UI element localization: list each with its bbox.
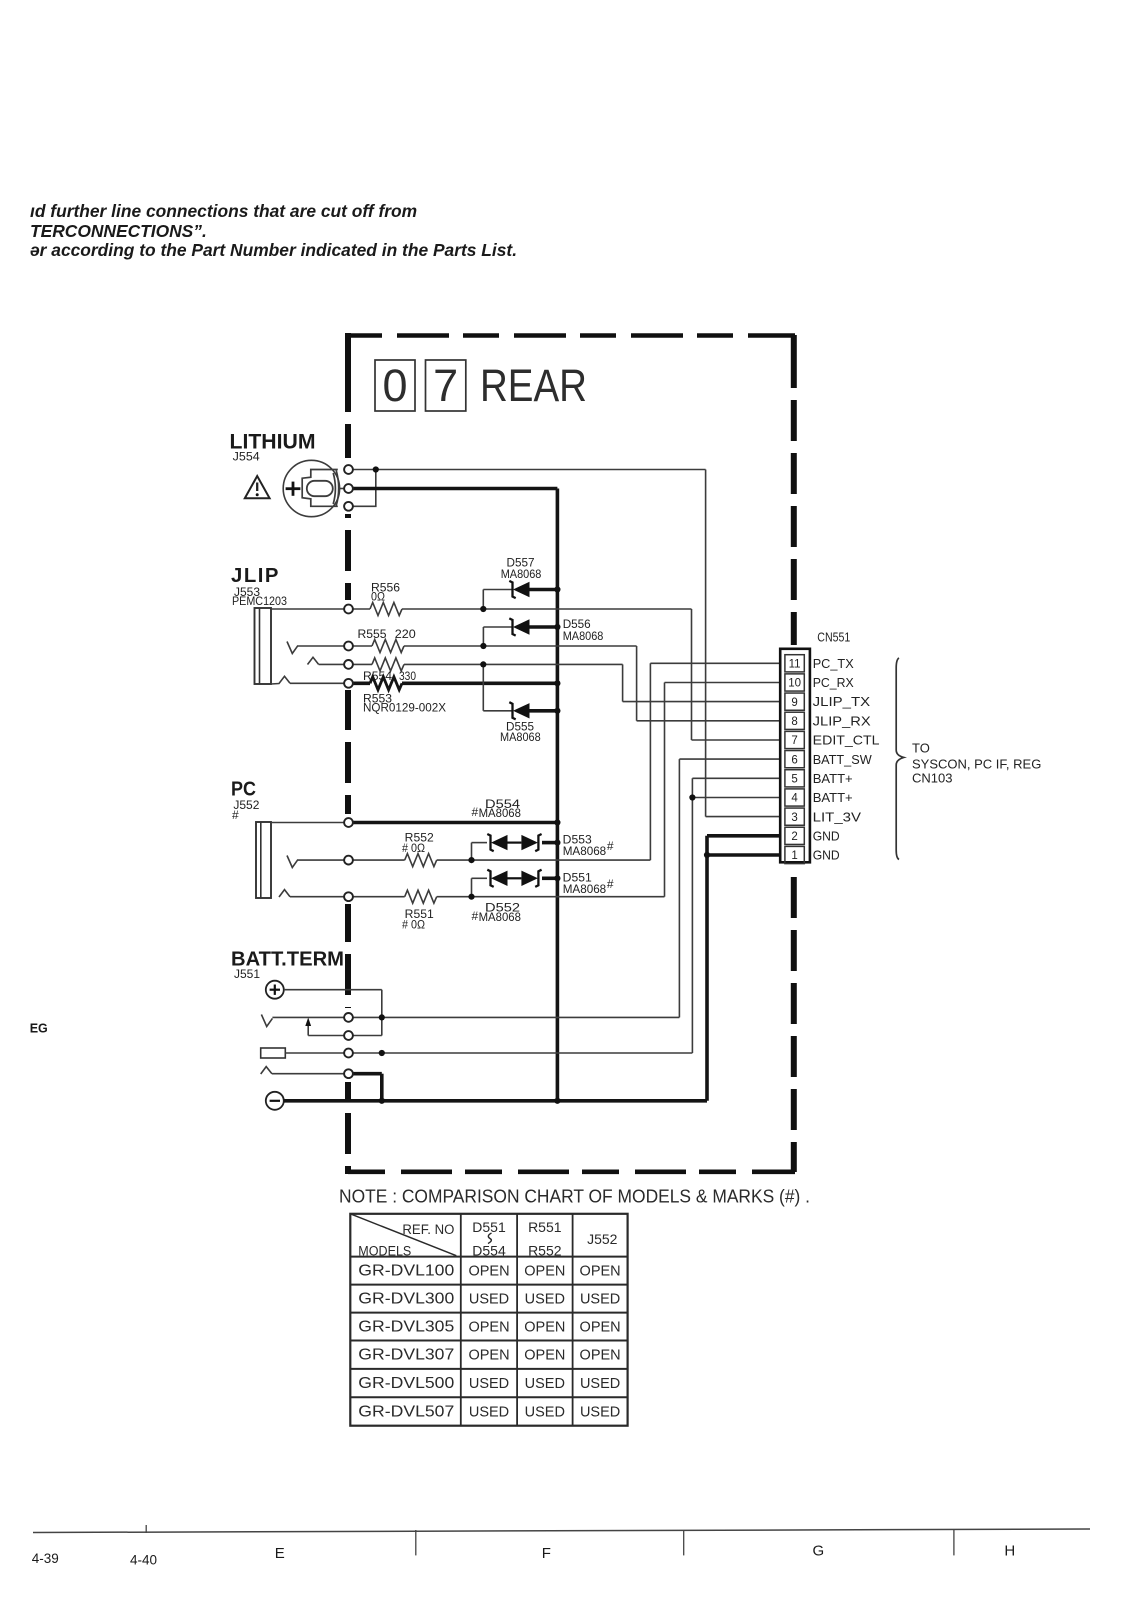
svg-text:USED: USED [525,1292,565,1308]
svg-text:USED: USED [525,1405,565,1421]
svg-text:BATT_SW: BATT_SW [813,752,873,767]
svg-text:USED: USED [469,1376,509,1392]
svg-text:R551: R551 [528,1219,562,1235]
svg-text:GR-DVL300: GR-DVL300 [358,1291,454,1308]
svg-text:NQR0129-002X: NQR0129-002X [363,701,446,715]
svg-text:3: 3 [791,812,797,824]
svg-text:7: 7 [791,735,797,747]
svg-text:4-39: 4-39 [32,1551,59,1566]
svg-text:USED: USED [469,1292,509,1308]
svg-text:0Ω: 0Ω [371,590,385,604]
svg-text:OPEN: OPEN [580,1264,621,1280]
svg-text:MA8068: MA8068 [500,730,541,744]
svg-text:OPEN: OPEN [468,1348,509,1364]
svg-text:F: F [542,1545,551,1562]
svg-text:H: H [1004,1542,1015,1559]
svg-text:MA8068: MA8068 [479,910,522,924]
svg-text:EDIT_CTL: EDIT_CTL [813,733,880,748]
svg-text:MA8068: MA8068 [479,806,522,820]
svg-text:0: 0 [382,360,407,411]
svg-text:BATT+: BATT+ [813,771,853,786]
svg-text:PC_RX: PC_RX [813,675,854,690]
svg-text:GR-DVL500: GR-DVL500 [358,1375,454,1392]
svg-text:5: 5 [791,774,797,786]
svg-text:R552: R552 [528,1243,562,1259]
svg-text:6: 6 [791,754,797,766]
svg-text:USED: USED [580,1376,620,1392]
svg-text:D554: D554 [472,1243,506,1259]
svg-text:GR-DVL507: GR-DVL507 [358,1404,454,1421]
svg-text:GR-DVL305: GR-DVL305 [358,1319,454,1336]
svg-text:D551: D551 [472,1219,506,1235]
svg-text:PEMC1203: PEMC1203 [232,594,287,608]
svg-text:#: # [472,909,479,923]
svg-text:10: 10 [788,678,801,690]
svg-text:# 0Ω: # 0Ω [402,841,425,855]
svg-text:NOTE : COMPARISON CHART OF: NOTE : COMPARISON CHART OF MODELS & MARK… [339,1186,810,1207]
svg-text:1: 1 [791,850,797,862]
svg-text:7: 7 [433,360,458,411]
svg-text:JLIP_TX: JLIP_TX [813,694,871,709]
svg-text:PC_TX: PC_TX [813,656,854,671]
svg-text:USED: USED [469,1405,509,1421]
svg-text:USED: USED [525,1376,565,1392]
svg-text:LIT_3V: LIT_3V [813,809,862,824]
svg-text:TO: TO [912,741,930,756]
svg-text:330: 330 [399,669,416,683]
svg-text:E: E [275,1545,285,1562]
svg-text:CN103: CN103 [912,771,952,786]
svg-text:MA8068: MA8068 [501,567,542,581]
svg-text:J554: J554 [233,450,260,464]
svg-text:4-40: 4-40 [130,1552,157,1567]
svg-text:#: # [607,877,614,891]
svg-text:OPEN: OPEN [524,1348,565,1364]
svg-text:J551: J551 [234,967,260,981]
svg-text:#: # [232,808,239,822]
svg-text:8: 8 [791,716,797,728]
svg-text:MA8068: MA8068 [563,629,604,643]
svg-text:4: 4 [791,793,798,805]
svg-text:OPEN: OPEN [580,1320,621,1336]
svg-text:EG: EG [30,1021,48,1035]
svg-text:OPEN: OPEN [580,1348,621,1364]
svg-text:#: # [607,839,614,853]
svg-text:JLIP_RX: JLIP_RX [813,713,871,728]
svg-text:2: 2 [791,831,797,843]
svg-text:G: G [813,1542,825,1559]
svg-text:GR-DVL100: GR-DVL100 [358,1263,454,1280]
svg-text:OPEN: OPEN [468,1320,509,1336]
svg-text:R555: R555 [358,627,387,641]
svg-text:REAR: REAR [480,360,587,411]
svg-text:REF. NO: REF. NO [402,1222,454,1237]
svg-text:MODELS: MODELS [358,1244,411,1259]
svg-text:GR-DVL307: GR-DVL307 [358,1347,454,1364]
svg-text:OPEN: OPEN [524,1320,565,1336]
svg-text:BATT+: BATT+ [813,790,853,805]
svg-text:USED: USED [580,1405,620,1421]
svg-text:11: 11 [789,659,801,671]
svg-text:R554: R554 [363,669,392,683]
svg-text:OPEN: OPEN [524,1264,565,1280]
svg-text:#: # [472,805,479,819]
svg-text:JLIP: JLIP [231,565,280,587]
svg-text:GND: GND [813,848,840,863]
svg-text:SYSCON, PC IF, REG: SYSCON, PC IF, REG [912,757,1041,772]
svg-text:USED: USED [580,1292,620,1308]
svg-text:MA8068: MA8068 [563,882,607,896]
svg-text:OPEN: OPEN [468,1264,509,1280]
svg-text:220: 220 [395,627,416,641]
svg-text:MA8068: MA8068 [563,844,607,858]
svg-text:CN551: CN551 [817,629,850,644]
svg-text:# 0Ω: # 0Ω [402,918,425,932]
svg-text:9: 9 [791,697,797,709]
svg-text:J552: J552 [587,1231,618,1247]
svg-text:GND: GND [813,828,840,843]
